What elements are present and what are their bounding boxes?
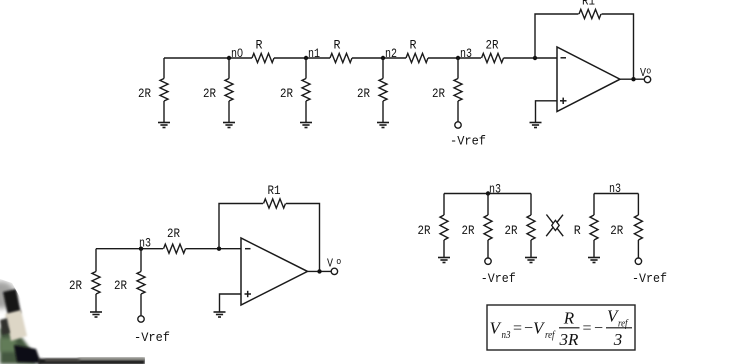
svg-text:−: − <box>524 320 533 337</box>
svg-text:-Vref: -Vref <box>481 272 516 286</box>
svg-text:R: R <box>574 224 581 238</box>
svg-text:2R: 2R <box>486 39 499 53</box>
svg-text:2R: 2R <box>167 227 180 241</box>
svg-text:2R: 2R <box>69 279 82 293</box>
svg-text:n3: n3 <box>139 236 151 250</box>
svg-text:2R: 2R <box>432 87 445 101</box>
svg-text:R1: R1 <box>582 0 595 9</box>
svg-text:-Vref: -Vref <box>450 135 486 149</box>
svg-text:n3: n3 <box>502 330 511 341</box>
svg-text:R: R <box>334 39 341 53</box>
svg-text:o: o <box>336 257 341 267</box>
svg-text:=: = <box>583 320 592 337</box>
svg-text:n3: n3 <box>609 182 621 196</box>
svg-text:2R: 2R <box>505 224 518 238</box>
svg-text:3: 3 <box>613 330 623 349</box>
svg-text:n3: n3 <box>460 47 472 61</box>
svg-text:-Vref: -Vref <box>632 272 667 286</box>
svg-text:R: R <box>563 309 575 328</box>
svg-text:0: 0 <box>237 48 243 60</box>
svg-text:−: − <box>594 320 603 337</box>
svg-text:V: V <box>327 257 334 271</box>
svg-text:2R: 2R <box>138 87 151 101</box>
svg-text:n2: n2 <box>385 47 397 61</box>
svg-text:3R: 3R <box>559 330 580 349</box>
svg-text:2R: 2R <box>610 224 623 238</box>
svg-text:2R: 2R <box>357 87 370 101</box>
svg-text:2R: 2R <box>462 224 475 238</box>
svg-text:2R: 2R <box>280 87 293 101</box>
svg-text:n3: n3 <box>489 183 501 197</box>
svg-text:2R: 2R <box>203 87 216 101</box>
svg-text:=: = <box>513 320 522 337</box>
svg-text:-Vref: -Vref <box>134 331 170 345</box>
svg-text:2R: 2R <box>418 224 431 238</box>
svg-text:R: R <box>256 39 263 53</box>
svg-text:n1: n1 <box>308 47 320 61</box>
svg-text:2R: 2R <box>114 279 127 293</box>
svg-text:o: o <box>646 67 651 77</box>
svg-text:R1: R1 <box>268 184 281 198</box>
svg-text:R: R <box>410 39 417 53</box>
